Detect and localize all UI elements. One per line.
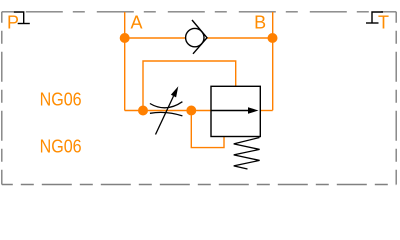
svg-text:NG06: NG06 (40, 137, 82, 157)
svg-text:A: A (131, 13, 143, 33)
throttle adjustment arrow head (171, 86, 178, 97)
relief valve body (211, 86, 260, 136)
wire mid line A-side (125, 110, 211, 112)
wire check valve to B (207, 37, 273, 39)
port T plugged-port symbol (366, 12, 383, 23)
frame top (2, 11, 396, 13)
junction throttle outlet (186, 106, 196, 116)
wire bypass loop to relief valve top (143, 61, 236, 111)
junction at A (120, 33, 130, 43)
port P plugged-port symbol (14, 12, 30, 24)
wire A riser (124, 12, 126, 111)
wire pilot line to relief valve bottom (191, 111, 224, 148)
svg-text:T: T (378, 13, 389, 33)
frame left (1, 12, 3, 185)
svg-text:B: B (254, 13, 266, 33)
frame right (395, 12, 397, 185)
svg-text:NG06: NG06 (40, 90, 82, 110)
svg-text:P: P (7, 13, 19, 33)
frame bottom (2, 184, 396, 186)
wire relief valve outlet to B riser (260, 110, 272, 112)
junction throttle inlet (138, 106, 148, 116)
relief valve spring (234, 138, 260, 170)
wire A to check valve (125, 37, 186, 39)
relief valve flow path arrow (211, 110, 250, 112)
junction at B (268, 33, 278, 43)
throttle valve (adjustable restrictor) (150, 96, 183, 134)
wire B riser (272, 12, 274, 110)
check valve V1 (186, 20, 207, 54)
